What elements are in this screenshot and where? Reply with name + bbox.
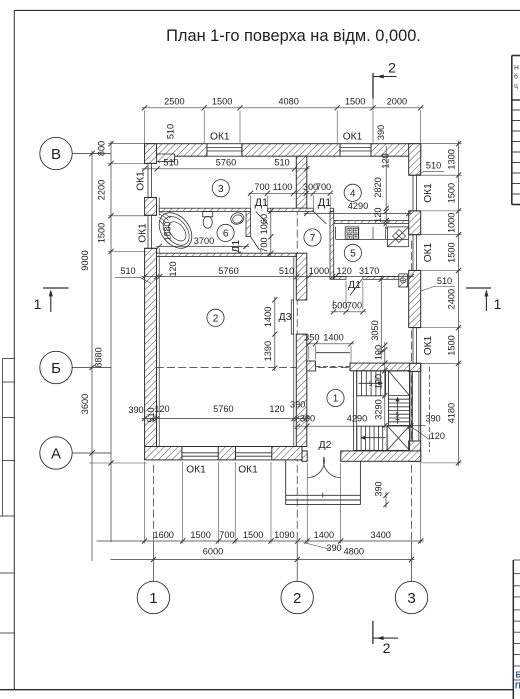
svg-text:120: 120 bbox=[381, 153, 391, 168]
svg-text:1: 1 bbox=[494, 296, 502, 312]
svg-text:1090: 1090 bbox=[274, 530, 294, 540]
svg-text:510: 510 bbox=[163, 157, 178, 167]
svg-text:Д3: Д3 bbox=[279, 311, 292, 323]
svg-text:В: В bbox=[51, 146, 61, 163]
svg-text:Д1: Д1 bbox=[318, 197, 332, 209]
svg-text:700: 700 bbox=[347, 301, 362, 311]
svg-text:4: 4 bbox=[350, 188, 356, 199]
svg-text:510: 510 bbox=[120, 266, 135, 276]
svg-text:1500: 1500 bbox=[447, 242, 457, 262]
svg-text:ОК1: ОК1 bbox=[423, 242, 434, 262]
svg-text:1500: 1500 bbox=[447, 183, 457, 203]
svg-text:2: 2 bbox=[293, 590, 301, 607]
svg-text:План 1-го поверха на відм. 0,0: План 1-го поверха на відм. 0,000. bbox=[166, 27, 421, 45]
svg-text:ОК1: ОК1 bbox=[423, 335, 434, 355]
svg-text:1060: 1060 bbox=[259, 214, 269, 234]
svg-text:1400: 1400 bbox=[263, 307, 273, 327]
svg-text:1400: 1400 bbox=[323, 333, 343, 343]
svg-text:390: 390 bbox=[290, 400, 305, 410]
svg-text:А: А bbox=[51, 445, 61, 462]
svg-text:ОК1: ОК1 bbox=[343, 132, 363, 143]
svg-text:Б: Б bbox=[516, 671, 520, 680]
svg-text:1500: 1500 bbox=[447, 335, 457, 355]
svg-text:700: 700 bbox=[219, 530, 234, 540]
svg-text:ОК1: ОК1 bbox=[138, 223, 149, 243]
svg-text:7: 7 bbox=[310, 233, 316, 244]
svg-text:4080: 4080 bbox=[278, 97, 298, 107]
svg-text:6: 6 bbox=[223, 229, 229, 240]
svg-text:3170: 3170 bbox=[359, 266, 379, 276]
svg-text:3290: 3290 bbox=[373, 399, 383, 419]
svg-text:1: 1 bbox=[333, 394, 339, 405]
svg-text:120: 120 bbox=[337, 266, 352, 276]
svg-text:3400: 3400 bbox=[370, 530, 390, 540]
svg-text:510: 510 bbox=[437, 276, 452, 286]
svg-text:5760: 5760 bbox=[213, 404, 233, 414]
svg-text:5760: 5760 bbox=[218, 266, 238, 276]
svg-text:120: 120 bbox=[154, 404, 169, 414]
svg-text:1100: 1100 bbox=[273, 182, 293, 192]
svg-text:Д2: Д2 bbox=[319, 439, 332, 451]
svg-text:1500: 1500 bbox=[243, 530, 263, 540]
svg-text:2500: 2500 bbox=[164, 97, 184, 107]
svg-text:2: 2 bbox=[213, 313, 219, 324]
svg-text:700: 700 bbox=[316, 182, 331, 192]
svg-text:4180: 4180 bbox=[447, 403, 457, 423]
svg-text:510: 510 bbox=[165, 124, 175, 139]
svg-text:9000: 9000 bbox=[80, 250, 90, 270]
svg-text:1000: 1000 bbox=[447, 213, 457, 233]
svg-text:ОК1: ОК1 bbox=[186, 465, 206, 476]
svg-text:3050: 3050 bbox=[370, 320, 380, 340]
svg-text:390: 390 bbox=[425, 414, 440, 424]
svg-text:П: П bbox=[515, 682, 520, 691]
svg-text:1390: 1390 bbox=[263, 341, 273, 361]
svg-text:1: 1 bbox=[34, 296, 42, 312]
svg-text:120: 120 bbox=[168, 261, 178, 276]
svg-text:2: 2 bbox=[383, 640, 391, 656]
svg-text:700: 700 bbox=[259, 237, 269, 252]
svg-text:ОК1: ОК1 bbox=[136, 171, 147, 191]
svg-text:1300: 1300 bbox=[447, 149, 457, 169]
svg-text:5: 5 bbox=[350, 249, 356, 260]
svg-text:2820: 2820 bbox=[373, 177, 383, 197]
svg-text:390: 390 bbox=[326, 543, 341, 553]
svg-text:1500: 1500 bbox=[212, 97, 232, 107]
svg-text:1500: 1500 bbox=[345, 97, 365, 107]
svg-text:Д1: Д1 bbox=[255, 197, 269, 209]
svg-text:390: 390 bbox=[376, 125, 386, 140]
svg-text:ОК1: ОК1 bbox=[423, 183, 434, 203]
svg-text:3700: 3700 bbox=[194, 236, 214, 246]
svg-text:ц: ц bbox=[514, 83, 518, 90]
svg-text:1: 1 bbox=[149, 590, 157, 607]
svg-text:120: 120 bbox=[269, 404, 284, 414]
svg-text:120: 120 bbox=[373, 208, 383, 223]
svg-text:6000: 6000 bbox=[203, 547, 223, 557]
svg-text:2: 2 bbox=[388, 60, 396, 76]
svg-text:Б: Б bbox=[51, 360, 61, 377]
svg-text:510: 510 bbox=[274, 157, 289, 167]
svg-text:390: 390 bbox=[374, 481, 384, 496]
svg-text:1500: 1500 bbox=[190, 530, 210, 540]
svg-text:120: 120 bbox=[430, 431, 445, 441]
svg-text:3: 3 bbox=[407, 590, 415, 607]
svg-text:2000: 2000 bbox=[387, 97, 407, 107]
svg-text:ОК1: ОК1 bbox=[210, 132, 230, 143]
svg-text:510: 510 bbox=[146, 407, 156, 422]
svg-text:1880: 1880 bbox=[162, 222, 172, 242]
svg-text:1600: 1600 bbox=[153, 530, 173, 540]
svg-text:510: 510 bbox=[279, 266, 294, 276]
svg-text:390: 390 bbox=[128, 405, 143, 415]
svg-text:3600: 3600 bbox=[80, 394, 90, 414]
svg-text:1500: 1500 bbox=[97, 223, 107, 243]
svg-text:800: 800 bbox=[97, 141, 107, 156]
svg-text:500: 500 bbox=[332, 301, 347, 311]
svg-text:510: 510 bbox=[426, 161, 441, 171]
svg-text:700: 700 bbox=[254, 182, 269, 192]
svg-text:4290: 4290 bbox=[348, 201, 368, 211]
svg-text:3: 3 bbox=[218, 184, 224, 195]
svg-text:190: 190 bbox=[373, 374, 383, 389]
svg-text:8880: 8880 bbox=[94, 347, 104, 367]
svg-text:5760: 5760 bbox=[216, 157, 236, 167]
svg-text:б: б bbox=[514, 73, 518, 81]
svg-text:350: 350 bbox=[304, 333, 319, 343]
svg-text:Н: Н bbox=[514, 65, 519, 72]
svg-text:1000: 1000 bbox=[309, 266, 329, 276]
svg-text:4800: 4800 bbox=[344, 547, 364, 557]
svg-text:2400: 2400 bbox=[447, 289, 457, 309]
svg-text:1400: 1400 bbox=[314, 530, 334, 540]
svg-text:ОК1: ОК1 bbox=[238, 465, 258, 476]
svg-text:190: 190 bbox=[373, 345, 383, 360]
svg-text:2200: 2200 bbox=[97, 180, 107, 200]
svg-text:4290: 4290 bbox=[347, 413, 367, 423]
